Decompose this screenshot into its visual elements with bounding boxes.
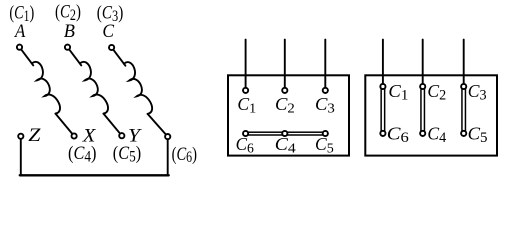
lead wire L2 (middle box) [284,40,286,88]
svg-text:(C5): (C5) [113,142,141,166]
lead wire L3 (right box) [463,40,465,84]
svg-text:(C6): (C6) [172,143,197,166]
wire: Z terminal down to bottom bus [20,139,22,175]
terminal C5 (right box) [461,131,466,136]
terminal Z [18,134,23,139]
svg-text:(C4): (C4) [68,142,97,166]
lead wire L1 (middle box) [245,40,247,88]
link bar C3-C5 (right box) [462,89,466,133]
terminal C6 (right box) [380,131,385,136]
winding A-X (C1-C4) bottom lead [56,114,73,134]
terminal box (delta) outline [365,75,497,155]
terminal C4 (right box) [420,131,425,136]
svg-text:B: B [64,21,75,42]
winding C-C6 (C3-C6) top lead [114,50,126,66]
wire: bottom horizontal run [20,174,169,176]
terminal C [109,45,114,50]
wire: up to C6 terminal [167,140,169,176]
winding B-Y (C2-C5) coil [80,62,108,114]
winding B-Y (C2-C5) top lead [69,50,81,66]
lead wire L2 (right box) [422,40,424,84]
terminal C2 (middle box) [282,88,287,93]
svg-text:Z: Z [28,125,41,145]
terminal C4 (middle box) [282,131,287,136]
star bus bar linking C6-C4-C5 [244,132,326,135]
terminal C6 [165,134,170,139]
terminal C3 (right box) [461,84,466,89]
svg-text:A: A [14,20,26,41]
terminal A [17,45,22,50]
terminal C3 (middle box) [323,88,328,93]
winding C-C6 (C3-C6) bottom lead [148,114,166,134]
terminal B [65,45,70,50]
lead wire L3 (middle box) [324,40,326,88]
svg-text:C: C [102,20,114,41]
terminal C6 (middle box) [243,131,248,136]
winding B-Y (C2-C5) bottom lead [104,114,120,134]
winding C-C6 (C3-C6) coil [124,62,152,114]
terminal C5 (middle box) [323,131,328,136]
terminal C1 (middle box) [243,88,248,93]
winding A-X (C1-C4) coil [32,62,60,114]
link bar C1-C6 (right box) [381,89,385,133]
winding A-X (C1-C4) top lead [21,50,33,66]
lead wire L1 (right box) [382,40,384,84]
link bar C2-C4 (right box) [421,89,425,133]
terminal X (C4) [72,133,77,138]
terminal Y (C5) [119,133,124,138]
terminal C1 (right box) [380,84,385,89]
terminal box (star) outline [228,75,349,155]
terminal C2 (right box) [420,84,425,89]
